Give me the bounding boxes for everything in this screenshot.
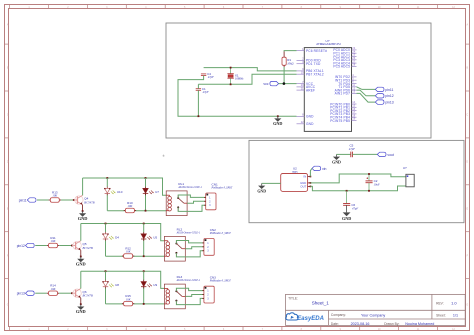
wire led1 branch xyxy=(106,178,108,187)
LED D4 green xyxy=(102,232,119,241)
svg-text:BC547B: BC547B xyxy=(84,200,94,204)
wire emitter Q5 xyxy=(80,250,82,256)
wire relay common to pin3 xyxy=(176,298,204,304)
wire led1 branch xyxy=(105,224,107,233)
junction led1 top xyxy=(105,270,107,272)
svg-text:TITLE:: TITLE: xyxy=(288,296,298,300)
connector CN3 PinHeader-3 xyxy=(202,276,231,304)
svg-text:PD1 TXD: PD1 TXD xyxy=(306,62,321,66)
resistor R15 10K xyxy=(122,294,134,306)
svg-text:Sheet_1: Sheet_1 xyxy=(312,300,330,305)
wire led2 branch xyxy=(145,178,147,187)
driver block 2 xyxy=(17,223,232,267)
svg-text:16MHz: 16MHz xyxy=(235,77,244,81)
junction C2 top xyxy=(368,173,370,175)
capacitor C5 47pF xyxy=(337,144,356,158)
svg-text:U?: U? xyxy=(403,166,407,170)
svg-text:C: C xyxy=(466,114,468,117)
svg-text:47pF: 47pF xyxy=(203,90,209,94)
svg-text:pin13: pin13 xyxy=(17,292,25,296)
svg-text:BC547B: BC547B xyxy=(83,246,93,250)
wire GND pin to top rail xyxy=(310,174,406,183)
wire relay NO to pin2 xyxy=(185,295,204,297)
junction led2 top xyxy=(143,223,145,225)
junction C1/gnd xyxy=(198,115,200,117)
svg-text:47pF: 47pF xyxy=(349,147,355,151)
transistor Q4 BC547B xyxy=(73,195,95,204)
ground Q4 xyxy=(78,211,88,221)
svg-text:7805: 7805 xyxy=(292,171,298,174)
wire C1 bottom xyxy=(197,90,199,116)
svg-text:AIN1 PD7: AIN1 PD7 xyxy=(335,92,350,96)
LED U10 green xyxy=(104,187,123,196)
svg-text:PC5 ADC5: PC5 ADC5 xyxy=(333,65,350,69)
LED U9 red xyxy=(141,280,157,289)
resistor R13 10K xyxy=(49,190,61,202)
svg-text:Drawn By:: Drawn By: xyxy=(384,322,399,326)
capacitor C1 47pF xyxy=(196,87,209,94)
relay RL1 AK1B-Omron-G5LE-1 xyxy=(166,182,202,216)
svg-text:Sheet:: Sheet: xyxy=(436,313,446,317)
junction led2 bottom xyxy=(143,303,145,305)
transistor Q6 BC547B xyxy=(71,289,93,298)
svg-text:vcc: vcc xyxy=(263,82,268,86)
wire C4 to gnd loop xyxy=(178,76,297,117)
wire pin12 to R11 xyxy=(35,245,47,247)
wire C5 to vout xyxy=(352,153,377,155)
wire OUT pin rail xyxy=(310,186,406,191)
svg-text:47pF: 47pF xyxy=(208,75,214,79)
svg-text:10uF: 10uF xyxy=(374,182,380,186)
junction led2 top xyxy=(143,270,145,272)
wire bottom rail xyxy=(107,210,166,212)
wire pin11 to R13 xyxy=(37,199,49,201)
wire PD6 to pin12 xyxy=(357,90,376,96)
svg-text:Company:: Company: xyxy=(331,313,346,317)
node pin12 flag at MCU xyxy=(375,94,384,98)
svg-text:Date:: Date: xyxy=(331,322,339,326)
vcc net flag xyxy=(270,81,279,85)
capacitor C6 47pF xyxy=(343,191,358,213)
wire R13 to Q4 xyxy=(61,199,74,201)
ground Q6 xyxy=(76,304,86,314)
svg-text:EasyEDA: EasyEDA xyxy=(297,316,324,322)
svg-text:BC547B: BC547B xyxy=(83,294,93,298)
node pin11 net flag xyxy=(27,198,36,202)
svg-text:PC6 RESET#: PC6 RESET# xyxy=(306,49,327,53)
wire collector Q5 xyxy=(80,224,82,241)
transistor Q5 BC547B xyxy=(71,241,93,250)
vout net flag xyxy=(377,152,386,156)
svg-text:U8: U8 xyxy=(115,283,119,287)
svg-text:pin11: pin11 xyxy=(385,88,393,92)
junction C2 bottom xyxy=(368,190,370,192)
wire C1 top xyxy=(197,84,199,88)
wire XTAL2 rail xyxy=(198,74,296,84)
svg-text:GND: GND xyxy=(342,216,351,221)
wire bottom rail xyxy=(106,255,165,257)
wire pin13 to R14 xyxy=(35,292,47,294)
wire top rail xyxy=(83,178,167,195)
wire reset xyxy=(284,50,296,53)
svg-text:G: G xyxy=(466,304,468,307)
resistor R10 10K xyxy=(124,201,136,213)
wire led2 branch xyxy=(143,271,145,280)
svg-text:AREF: AREF xyxy=(306,88,315,92)
junction led1 top xyxy=(106,177,108,179)
wire emitter Q4 xyxy=(82,205,84,211)
resistor R14 10K xyxy=(47,284,59,296)
node pin11 flag at MCU xyxy=(375,87,384,91)
MCU section frame xyxy=(166,23,431,138)
svg-text:ATMEGA328P-PU: ATMEGA328P-PU xyxy=(316,42,341,46)
title block xyxy=(286,294,466,326)
node pin13 flag at MCU xyxy=(375,100,384,104)
wire top rail xyxy=(81,271,165,288)
junction led2 bottom xyxy=(143,255,145,257)
svg-text:PinHeader-3_SPDT: PinHeader-3_SPDT xyxy=(209,280,232,283)
ground MCU xyxy=(273,116,282,126)
wire led1 branch xyxy=(105,271,107,280)
connector CN1 PinHeader-3 xyxy=(204,182,233,210)
svg-text:D: D xyxy=(466,160,468,163)
svg-text:U5: U5 xyxy=(153,235,157,239)
vin net flag xyxy=(312,166,321,170)
wire vin to IN xyxy=(310,168,312,176)
svg-text:10kΩ: 10kΩ xyxy=(287,61,293,65)
resistor R12 10K xyxy=(122,246,134,258)
svg-text:OUT: OUT xyxy=(300,185,306,189)
op-amp U1 ATMEGA328P-PU microcontroller xyxy=(297,39,357,132)
junction X1 top xyxy=(230,67,232,69)
resistor R11 10K xyxy=(47,236,59,248)
svg-text:pin13: pin13 xyxy=(385,101,393,105)
LED U7 red xyxy=(143,187,159,196)
svg-text:1/1: 1/1 xyxy=(453,314,458,318)
wire top rail xyxy=(81,224,165,241)
svg-text:U7: U7 xyxy=(155,190,159,194)
wire emitter Q6 xyxy=(80,298,82,304)
driver block 1 xyxy=(19,177,233,221)
capacitor C2 10uF electrolytic xyxy=(366,174,380,191)
connector CN2 PinHeader-3 xyxy=(202,228,231,256)
relay RL3 AK1B-Omron-G5LE-1 xyxy=(164,275,200,309)
svg-text:vout: vout xyxy=(387,153,393,157)
wire bottom rail xyxy=(106,303,165,305)
svg-text:1.0: 1.0 xyxy=(451,301,457,306)
svg-text:GND: GND xyxy=(76,262,86,267)
power section frame xyxy=(249,140,464,222)
junction X1 bottom xyxy=(230,83,232,85)
svg-text:pin12: pin12 xyxy=(385,94,393,98)
svg-text:U10: U10 xyxy=(117,190,123,194)
svg-text:pin11: pin11 xyxy=(19,198,27,202)
wire relay NO to pin2 xyxy=(187,201,206,203)
crystal X1 16MHz xyxy=(227,68,244,85)
svg-text:PCINT5 PB5: PCINT5 PB5 xyxy=(330,119,350,123)
wire collector Q4 xyxy=(82,178,84,195)
svg-text:pin12: pin12 xyxy=(17,244,25,248)
svg-text:U9: U9 xyxy=(153,283,157,287)
ground C6 xyxy=(343,212,351,216)
svg-text:GND: GND xyxy=(306,115,314,119)
svg-text:PB7 XTAL2: PB7 XTAL2 xyxy=(306,73,324,77)
svg-text:PinHeader-3_SPDT: PinHeader-3_SPDT xyxy=(209,232,232,235)
svg-text:G: G xyxy=(7,304,9,307)
junction vcc/R1 xyxy=(283,82,286,85)
svg-text:GND: GND xyxy=(306,122,314,126)
svg-text:D4: D4 xyxy=(115,235,119,239)
wire PD7 to pin13 xyxy=(357,93,376,102)
connector U3 2-pin xyxy=(403,166,414,187)
svg-text:AK1B-Omron-G5LE-1: AK1B-Omron-G5LE-1 xyxy=(176,232,201,235)
svg-text:GND: GND xyxy=(76,309,86,314)
wire relay NC to pin1 xyxy=(176,288,204,291)
wire PD5 to pin11 xyxy=(357,87,376,90)
op-amp U2 7805 regulator xyxy=(281,167,312,192)
ground U2 left xyxy=(262,182,281,184)
node pin13 net flag xyxy=(26,291,35,295)
resistor R1 10k reset pull-up xyxy=(282,52,293,84)
svg-text:REV:: REV: xyxy=(436,301,444,305)
svg-text:GND: GND xyxy=(332,160,341,164)
junction C6 xyxy=(346,190,348,192)
EasyEDA logo xyxy=(286,313,324,322)
wire led2 branch xyxy=(143,224,145,233)
ground Q5 xyxy=(76,257,86,267)
junction led1 top xyxy=(105,223,107,225)
svg-text:47pF: 47pF xyxy=(352,207,358,211)
ground C5 xyxy=(332,154,341,164)
LED U8 green xyxy=(102,280,119,289)
svg-text:AK1B-Omron-G5LE-1: AK1B-Omron-G5LE-1 xyxy=(176,279,201,282)
wire R11 to Q5 xyxy=(59,245,72,247)
relay RL2 AK1B-Omron-G5LE-1 xyxy=(164,227,200,261)
node pin12 net flag xyxy=(26,243,35,247)
svg-text:Nouina Mohamed: Nouina Mohamed xyxy=(405,322,434,326)
svg-text:IN: IN xyxy=(303,175,306,179)
wire relay NC to pin1 xyxy=(176,241,204,244)
wire XTAL1 rail xyxy=(204,68,297,71)
driver block 3 xyxy=(17,270,232,314)
wire relay NC to pin1 xyxy=(178,195,206,198)
capacitor C4 47pF xyxy=(201,72,214,79)
svg-text:D: D xyxy=(7,160,9,163)
wire collector Q6 xyxy=(80,271,82,288)
wire relay common to pin3 xyxy=(178,205,206,211)
LED U5 red xyxy=(141,232,157,241)
svg-text:C: C xyxy=(7,114,9,117)
svg-text:PinHeader-3_SPDT: PinHeader-3_SPDT xyxy=(211,186,234,189)
junction led2 bottom xyxy=(145,210,147,212)
svg-text:2023-08-16: 2023-08-16 xyxy=(351,322,370,326)
wire relay NO to pin2 xyxy=(185,247,204,249)
svg-text:GND: GND xyxy=(78,216,88,221)
svg-text:GND: GND xyxy=(257,189,266,193)
svg-text:GND: GND xyxy=(273,121,282,126)
svg-text:Your Company: Your Company xyxy=(361,313,385,317)
wire relay common to pin3 xyxy=(176,251,204,257)
wire R14 to Q6 xyxy=(59,292,72,294)
svg-text:vin: vin xyxy=(322,167,326,171)
junction gnd symbol xyxy=(277,115,279,117)
svg-text:AK1B-Omron-G5LE-1: AK1B-Omron-G5LE-1 xyxy=(177,186,202,189)
junction led2 top xyxy=(145,177,147,179)
wire vcc to VCC pin xyxy=(279,83,297,85)
